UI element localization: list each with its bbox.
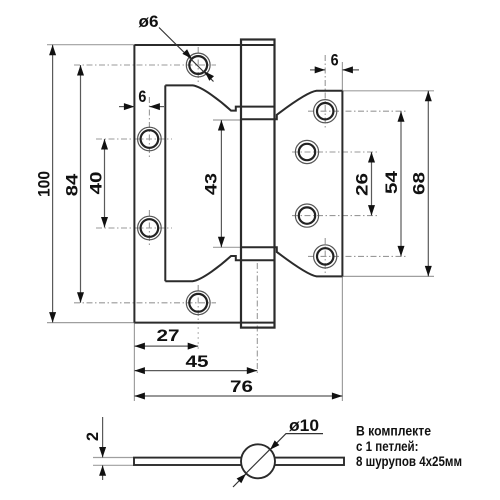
leader line dia10: [233, 434, 323, 487]
svg-text:40: 40: [86, 172, 105, 195]
extension line right plate right edge down: [341, 276, 343, 401]
arrow 68 bottom (down): [425, 266, 432, 277]
arrow 27 right (right-pointing): [188, 343, 199, 350]
dim line 27: [134, 345, 198, 347]
arrow 54 top (up): [398, 111, 405, 122]
left leaf bottom edge: [134, 322, 274, 324]
dim line 100: [52, 45, 54, 323]
hole right B (outer countersink): [295, 140, 318, 163]
svg-text:100: 100: [35, 171, 54, 197]
centerline left mid hole 2 horizontal: [96, 227, 172, 229]
svg-text:84: 84: [63, 173, 82, 196]
arrow 2 top (down-pointing): [99, 447, 106, 458]
hole top-left plate (outer countersink): [186, 53, 210, 77]
svg-text:ø6: ø6: [139, 12, 159, 31]
hole right D (outer countersink): [314, 245, 337, 268]
svg-text:27: 27: [157, 326, 180, 345]
dim line 2 side view: [102, 417, 104, 458]
arrow 2 bottom (up-pointing): [99, 465, 106, 476]
dimension texts: [35, 12, 429, 441]
side view knuckle circle: [241, 444, 275, 478]
svg-text:45: 45: [186, 352, 209, 371]
dim line 76: [134, 395, 342, 397]
dim line 68: [427, 91, 429, 277]
left leaf cutout vertical edge: [164, 85, 166, 281]
arrow 40 bottom (down): [101, 217, 108, 228]
hole right C (outer countersink): [295, 204, 318, 227]
right leaf outline: [241, 91, 342, 277]
hole right A (bore): [317, 103, 333, 119]
arrow 45 right (right-pointing): [247, 367, 257, 374]
centerlines (dash-dot gray): [74, 47, 406, 374]
arrow 26 bottom (down): [368, 205, 375, 216]
extension line side view bottom: [93, 464, 134, 466]
centerline right hole A vertical: [324, 55, 326, 130]
svg-text:43: 43: [202, 173, 221, 195]
extension line right plate top edge right: [342, 90, 434, 92]
extension line side view top: [93, 457, 134, 459]
left leaf cutout bottom edge with S-curve and step: [165, 256, 274, 281]
hole left mid 1 (outer countersink): [138, 127, 162, 151]
centerline right hole D horizontal: [308, 255, 406, 257]
hole left mid 1 (bore): [141, 130, 159, 148]
arrow 6 right b (left-pointing): [342, 66, 353, 73]
centerline right hole B horizontal: [292, 151, 377, 153]
arrow 76 left (left-pointing): [134, 393, 145, 400]
dim line 45: [134, 370, 257, 372]
centerline knuckle vertical: [256, 263, 258, 374]
centerline top hole horizontal: [74, 64, 216, 66]
svg-text:с 1 петлей:: с 1 петлей:: [356, 438, 419, 454]
extension line 43 top: [213, 119, 241, 121]
extension line right plate bottom edge right: [342, 275, 434, 277]
svg-text:26: 26: [353, 173, 372, 196]
knuckle (central barrel): [241, 40, 275, 328]
left leaf cutout top edge with S-curve and step: [165, 85, 274, 110]
svg-text:8 шурупов 4х25мм: 8 шурупов 4х25мм: [356, 453, 462, 469]
centerline bottom hole horizontal: [74, 302, 216, 304]
side view: [134, 444, 344, 478]
extension line right plate right edge top: [341, 62, 343, 91]
arrow dia10 upper (down-left pointing): [270, 440, 279, 449]
note text block: [356, 423, 462, 469]
dim line 40: [104, 139, 106, 228]
svg-text:ø10: ø10: [289, 416, 319, 435]
arrow 68 top (up): [425, 91, 432, 102]
svg-text:54: 54: [382, 170, 401, 194]
right leaf bottom cutout line with step and S-curve: [241, 247, 342, 276]
arrow 100 bottom (down): [49, 312, 56, 323]
centerline top hole vertical: [197, 47, 199, 83]
arrow 6 left b (left-pointing): [149, 103, 160, 110]
arrow 76 right (right-pointing): [332, 393, 343, 400]
extension lines (gray solid): [47, 45, 434, 466]
arrow dia6 lower (up-left pointing): [205, 71, 214, 80]
arrow 45 left (left-pointing): [134, 367, 145, 374]
svg-text:6: 6: [331, 51, 339, 70]
side view plate bar: [134, 458, 344, 465]
hole right A (outer countersink): [314, 100, 337, 123]
hole right C (bore): [299, 207, 315, 223]
side view leader cross line inside circle: [246, 449, 270, 473]
dim line 6 right (outside tails): [310, 69, 325, 71]
extension line 43 bottom: [213, 246, 241, 248]
svg-text:2: 2: [83, 432, 102, 441]
arrow 84 bottom (down): [77, 292, 84, 303]
left leaf top edge: [134, 44, 274, 46]
dim line 84: [80, 65, 82, 303]
svg-text:68: 68: [410, 172, 429, 195]
dim line 6 left (outside tails): [119, 106, 134, 108]
hole left mid 2 (bore): [141, 219, 159, 237]
hole right B (bore): [299, 144, 315, 160]
hole bottom-left plate (bore): [189, 294, 207, 312]
dim line 26: [371, 152, 373, 216]
centerline right hole A horizontal: [308, 110, 406, 112]
centerline left mid holes vertical: [148, 97, 150, 158]
arrow 84 top (up): [77, 65, 84, 76]
extension line left plate left edge down: [133, 323, 135, 401]
right leaf top cutout line with step and S-curve: [241, 91, 342, 120]
hole right D (bore): [317, 248, 333, 264]
centerline right hole D vertical: [324, 238, 326, 274]
hole bottom-left plate (outer countersink): [186, 291, 210, 315]
centerline right hole C horizontal: [292, 215, 377, 217]
arrow 6 right a (right-pointing): [315, 66, 326, 73]
centerline bottom hole vertical: [197, 285, 199, 320]
arrowheads: [49, 45, 432, 483]
hole left mid 2 (outer countersink): [138, 216, 162, 240]
dotted extension bottom hole to 27 dim: [197, 322, 199, 349]
dim line 43: [220, 120, 222, 247]
hole top-left plate (bore): [189, 56, 207, 74]
extension line bottom-left plate edge: [47, 322, 134, 324]
arrow 6 left a (right-pointing): [124, 103, 134, 110]
svg-text:В комплекте: В комплекте: [356, 423, 431, 439]
centerline left mid hole 2 vertical: [148, 210, 150, 246]
leader line dia6: [159, 28, 214, 82]
arrow dia6 upper (down-right pointing): [182, 49, 191, 58]
left leaf left edge: [133, 45, 135, 323]
arrow 100 top (up): [49, 45, 56, 56]
extension line top-left plate edge: [47, 44, 134, 46]
arrow 43 bottom (down): [218, 237, 225, 248]
dimension lines (thin dark): [53, 28, 429, 488]
arrow dia10 lower (up-right pointing): [237, 474, 246, 483]
right leaf right edge: [341, 91, 343, 277]
svg-text:6: 6: [138, 87, 146, 106]
svg-text:76: 76: [230, 377, 253, 396]
left leaf outline: [134, 45, 274, 323]
dim line 54: [400, 111, 402, 256]
centerline left mid hole 1 horizontal: [96, 138, 172, 140]
arrow 27 left (left-pointing): [134, 343, 145, 350]
arrow 40 top (up): [101, 139, 108, 150]
arrow 54 bottom (down): [398, 246, 405, 257]
arrow 26 top (up): [368, 152, 375, 163]
arrow 43 top (up): [218, 120, 225, 131]
